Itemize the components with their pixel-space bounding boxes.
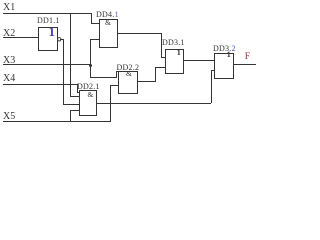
wire X1 stub into DD4.1 xyxy=(91,23,99,24)
wire DD2.1 output riser to DD3.2 xyxy=(211,70,212,103)
and-gate DD2.2 box xyxy=(118,71,139,94)
wire X3 horizontal xyxy=(3,64,91,65)
junction X3 branch xyxy=(89,64,92,67)
node X4 label xyxy=(3,74,15,84)
wire DD4.1 output down xyxy=(161,33,162,57)
wire X1 branch down to DD2.1 xyxy=(70,13,71,97)
and-gate DD2.1 function symbol & xyxy=(88,91,94,99)
and-gate DD2.1 box xyxy=(79,90,97,117)
wire X1 horizontal xyxy=(3,13,92,14)
wire DD4.1 output stub into DD3.1 xyxy=(161,57,166,58)
wire DD2.2 output stub into DD3.1 xyxy=(155,67,166,68)
and-gate DD4.1 box xyxy=(99,19,119,49)
wire DD3.1 output xyxy=(183,60,214,61)
wire X1 corner down to DD4.1 xyxy=(91,13,92,24)
wire DD2.2 output riser xyxy=(155,67,156,82)
inverter DD1.1 output bubble xyxy=(57,37,62,42)
wire X5 branch riser to DD2.1 xyxy=(70,110,71,122)
or-gate DD3.2 function symbol 1 xyxy=(227,51,231,59)
and-gate DD2.2 function symbol & xyxy=(126,70,132,78)
wire X4 stub into DD2.1 xyxy=(77,92,81,93)
wire X1 branch stub into DD2.1 xyxy=(70,96,80,97)
wire DD2.2 output xyxy=(138,81,155,82)
wire X5 branch stub into DD2.1 xyxy=(70,110,80,111)
and-gate DD4.1 label xyxy=(96,11,119,19)
or-gate DD3.1 label xyxy=(162,39,185,47)
and-gate DD2.2 label xyxy=(117,64,140,72)
and-gate DD4.1 function symbol & xyxy=(105,19,111,27)
or-gate DD3.1 function symbol 1 xyxy=(177,49,181,57)
node X2 label xyxy=(3,29,15,39)
inverter DD1.1 function symbol 1 xyxy=(49,25,56,38)
wire X5 horizontal xyxy=(3,121,111,122)
wire X5 riser to DD2.2 xyxy=(110,85,111,122)
wire DD1.1 output xyxy=(60,39,63,40)
wire DD2.1 output stub into DD3.2 xyxy=(211,70,215,71)
wire DD3.2 output F xyxy=(234,64,256,65)
wire DD1.1 output stub into DD2.1 xyxy=(63,104,80,105)
inverter DD1.1 label xyxy=(37,17,60,25)
wire DD1.1 output down xyxy=(63,39,64,106)
node X1 label xyxy=(3,3,15,13)
node F label xyxy=(245,53,250,63)
wire X4 drop xyxy=(77,84,78,93)
node X5 label xyxy=(3,112,15,122)
inverter DD1.1 box xyxy=(38,27,58,52)
or-gate DD3.1 box xyxy=(165,49,184,74)
wire X3 riser at DD2.2 xyxy=(116,71,117,78)
wire X4 horizontal xyxy=(3,84,78,85)
wire X3 stub into DD2.2 xyxy=(116,71,119,72)
wire DD4.1 output xyxy=(118,33,162,34)
wire DD2.1 output long run xyxy=(97,103,211,104)
wire X3 stub into DD4.1 xyxy=(90,39,99,40)
or-gate DD3.2 box xyxy=(214,53,234,79)
wire X3 riser to DD4.1 xyxy=(90,39,91,78)
and-gate DD2.1 label xyxy=(77,83,100,91)
node X3 label xyxy=(3,56,15,66)
wire X2 horizontal xyxy=(3,37,39,38)
wire X3 lower run to DD2.2 xyxy=(90,77,117,78)
or-gate DD3.2 label xyxy=(213,45,236,53)
wire X5 stub into DD2.2 xyxy=(110,85,119,86)
